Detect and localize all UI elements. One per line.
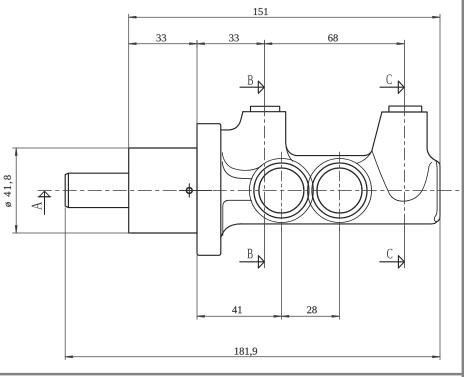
cylinder body left section [129,148,197,233]
label A [32,202,42,210]
centerline horizontal [38,190,462,192]
dimension row 41 28 [197,224,339,319]
label 41 [232,306,242,313]
label 33 first [157,34,167,41]
mounting hole symbol [186,188,192,194]
bore boss circle 1 [249,159,313,223]
saddle between ports [296,155,366,157]
bore 2 center vertical [338,152,340,231]
dimension 151 [129,14,440,162]
dimension row 33 33 68 [129,40,405,124]
bore boss circle 2 [308,159,372,223]
body top shoulder to port B [221,112,243,130]
port boss C left transition [364,112,382,156]
bore 1 outer circle [254,163,309,218]
body bottom line [240,222,437,224]
mounting flange [197,124,221,256]
label C top [386,74,391,84]
bore 2 outer circle [312,163,367,218]
label C bottom [387,249,392,259]
section line B [263,40,265,268]
port C cap [389,106,422,112]
bore 1 center vertical [280,152,282,231]
port boss B [243,112,296,156]
bore 2 inner circle [317,168,362,213]
label 68 [328,34,338,41]
dimension 41,8 vertical [13,148,132,233]
neck waist curve upper 1 [222,153,262,171]
bore 1 inner circle [259,168,304,213]
label 181,9 [235,348,257,357]
port boss C [382,112,436,161]
label 151 [254,8,268,15]
label phi 41,8 [4,175,13,206]
section arrow C top [380,81,404,93]
neck waist contour lower [223,200,252,235]
datum arrow A [38,191,51,214]
boss B fillet to bore 1 [286,147,293,161]
neck waist curve upper 2 [222,162,252,179]
boss C fillet to bore 2 [357,151,373,164]
label 28 [307,306,317,313]
section arrow B top [240,81,264,93]
label 33 second [229,34,239,41]
frame bottom edge [0,373,464,376]
section line C [403,40,405,268]
label B top [248,75,253,85]
section arrow C bottom [380,256,405,268]
label B bottom [247,249,252,259]
port B cap [251,106,280,111]
body right inner contour [434,161,437,222]
push rod [65,173,129,207]
bottom transition from flange [221,224,241,238]
dimension 181,9 [65,162,440,360]
valley between bore 2 and right end [372,152,432,202]
section arrow B bottom [240,256,265,268]
body right edge [436,161,440,222]
frame right edge [462,0,464,377]
